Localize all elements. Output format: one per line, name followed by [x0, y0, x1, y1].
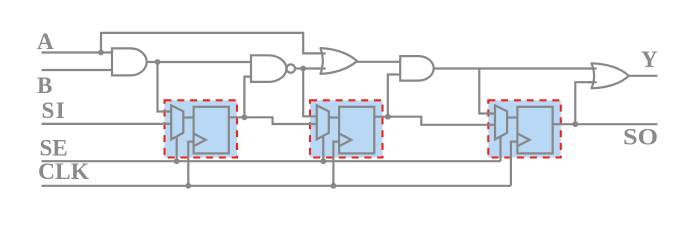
wire: SI scan-in to mux1 lower input — [42, 123, 173, 125]
OR gate G3 — [320, 48, 357, 74]
wire: AND1 output branch down to mux1 top input — [158, 62, 173, 112]
wire: FF1 Q up to NAND bottom input — [244, 77, 251, 118]
wire: AND2 output to OR2 top input — [434, 67, 598, 69]
wire: SE up into mux2 select — [322, 137, 324, 161]
mux M3 (2:1 scan mux of FF3) — [495, 105, 507, 139]
wire stub: OR2 bottom input into notch — [588, 81, 597, 83]
junction node SE to mux2 — [320, 158, 326, 164]
svg-text:SO: SO — [623, 125, 658, 150]
D flip-flop U2 body — [339, 107, 374, 154]
wire: SE up into mux1 select — [176, 137, 178, 161]
wire: branch of A up and over to OR1 top input — [101, 33, 325, 54]
wire: CLK up into FF2 clock pin — [333, 142, 339, 186]
junction node on SO line — [572, 121, 578, 127]
junction node CLK to FF2 — [331, 183, 337, 189]
wire stub: OR2 top input into notch — [588, 67, 597, 69]
junction node CLK to FF1 — [185, 183, 191, 189]
svg-text:SE: SE — [40, 136, 68, 161]
wire: mux2 output to FF2 D — [329, 116, 339, 118]
AND gate G4 — [400, 56, 434, 81]
wire: AND1 output to NAND top input — [147, 61, 252, 63]
wire: FF3 Q to SO output line — [553, 123, 658, 125]
wire: FF3 Q up to OR2 bottom input — [575, 82, 597, 124]
wire: input B to AND1 bottom input — [42, 69, 113, 71]
NAND gate G2 — [251, 55, 286, 82]
wire: OR2 output to Y — [629, 75, 658, 77]
wire: input A to AND1 top input — [42, 51, 113, 53]
wire: SE up into mux3 select — [499, 137, 501, 161]
wire: FF2 Q up to AND2 bottom input — [388, 75, 400, 117]
AND gate G1 (inputs A,B) — [112, 48, 147, 75]
junction node on AND1 output — [155, 59, 161, 65]
junction node on NAND output — [300, 66, 306, 72]
junction node on A line — [98, 50, 104, 56]
wire stub: OR1 top input into notch — [315, 52, 326, 54]
D flip-flop U3 body — [517, 107, 552, 154]
wire: OR1 output to AND2 top input — [357, 61, 401, 63]
svg-text:A: A — [37, 29, 54, 54]
wire: FF2 Q to mux3 lower input (scan chain) — [374, 117, 495, 125]
wire stub: OR1 bottom input into notch — [315, 67, 326, 69]
svg-text:Y: Y — [641, 47, 658, 72]
FF3 clock wedge — [517, 134, 529, 147]
wire: CLK rail — [42, 185, 511, 187]
junction node on FF1 Q — [242, 114, 248, 120]
FF2 clock wedge — [339, 134, 351, 147]
junction node on FF2 Q — [385, 114, 391, 120]
wire: mux1 output to FF1 D — [183, 116, 193, 118]
svg-text:CLK: CLK — [38, 159, 89, 184]
wire: SE scan-enable rail — [42, 160, 501, 162]
OR gate G5 (output Y) — [592, 63, 629, 88]
svg-text:SI: SI — [42, 98, 67, 123]
scan flip-flop block FF1 (blue box, red dashed DFT boundary) — [165, 100, 238, 157]
wire: FF1 Q to mux2 lower input (scan chain) — [229, 117, 317, 124]
wire: CLK up into FF1 clock pin — [188, 142, 193, 186]
NAND gate G2 bubble — [287, 64, 295, 72]
scan flip-flop block FF2 (blue box, red dashed DFT boundary) — [310, 100, 383, 157]
wire: mux3 output to FF3 D — [507, 116, 517, 118]
wire: tap of AND2 output down to mux3 top input — [479, 69, 495, 114]
scan flip-flop block FF3 (blue box, red dashed DFT boundary) — [488, 100, 561, 157]
mux M2 (2:1 scan mux of FF2) — [317, 105, 329, 139]
D flip-flop U1 body — [194, 107, 229, 154]
svg-text:B: B — [37, 73, 52, 98]
wire: CLK up into FF3 clock pin — [511, 142, 518, 186]
mux M1 (2:1 scan mux of FF1) — [171, 105, 183, 139]
junction node SE to mux1 — [174, 158, 180, 164]
wire: NAND output branch down to mux2 top input — [303, 69, 317, 117]
FF1 clock wedge — [194, 134, 206, 147]
wire: NAND output to OR1 bottom input — [295, 67, 325, 69]
